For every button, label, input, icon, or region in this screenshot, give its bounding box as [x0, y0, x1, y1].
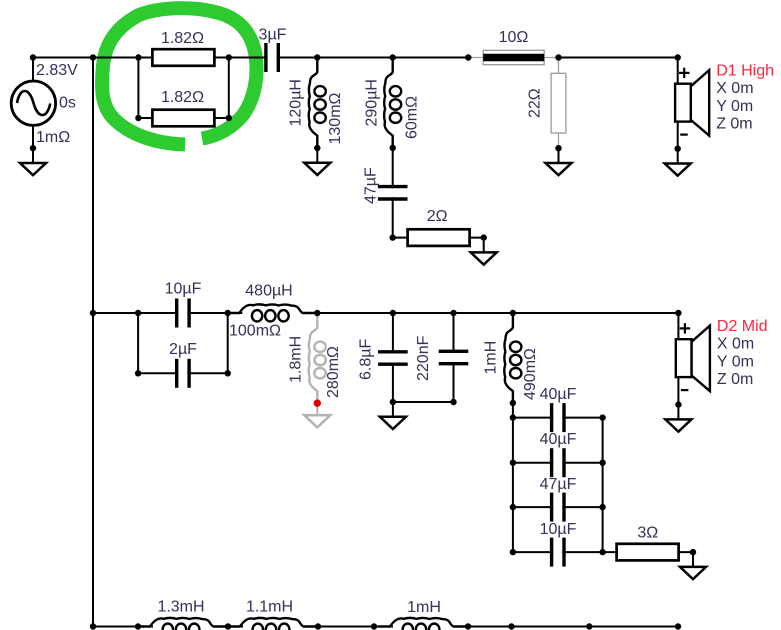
node: 290&#181;H out — [390, 145, 396, 151]
node: 1mH right — [465, 623, 471, 629]
node: 3&#937; gnd — [690, 549, 696, 555]
wire: D2 minus lead — [677, 377, 679, 405]
wire: parallel-R right branch — [228, 58, 230, 119]
ground (2&#937;) — [471, 238, 497, 265]
resistor 1.82&#937; (upper of parallel pair) — [152, 49, 214, 66]
resistor 3&#937; — [617, 544, 679, 561]
wire: bottom rail segment — [93, 626, 153, 628]
inductor 1.1mH (woofer branch) — [228, 618, 318, 630]
svg-text:1.1mH: 1.1mH — [246, 599, 293, 616]
node: bank rung1 left — [510, 414, 516, 420]
node: shunt gnd left — [390, 399, 396, 405]
svg-text:290µH: 290µH — [364, 79, 381, 126]
svg-text:D2 Mid: D2 Mid — [717, 318, 768, 335]
svg-text:X 0m: X 0m — [716, 80, 753, 97]
wire: source bottom lead — [32, 125, 34, 148]
svg-text:490mΩ: 490mΩ — [522, 348, 539, 400]
node: 2&#181;F left — [135, 370, 141, 376]
svg-text:2Ω: 2Ω — [427, 208, 448, 225]
node: bank rung1 right — [599, 414, 605, 420]
voltage source V1 2.83V — [11, 81, 55, 125]
svg-text:1.8mH: 1.8mH — [288, 336, 305, 383]
capacitor 2&#181;F — [177, 358, 189, 388]
wire: gray lead out of 10&#937; — [544, 57, 558, 59]
svg-text:1mΩ: 1mΩ — [36, 129, 70, 146]
svg-text:40µF: 40µF — [540, 386, 577, 403]
node: mid rail tap — [90, 310, 96, 316]
driver D1 High (tweeter) — [675, 70, 709, 136]
node: 1.3mH/1.1mH — [225, 623, 231, 629]
wire: bottom rail segment — [303, 626, 393, 628]
wire: parallel-R bottom branch — [138, 117, 228, 119]
node: 10&#937; left — [465, 54, 471, 60]
svg-text:120µH: 120µH — [287, 79, 304, 126]
capacitor 47&#181;F — [378, 187, 408, 199]
wire: cap-bank right rail — [602, 418, 604, 552]
wire: 6.8&#181;F branch — [392, 313, 394, 402]
inductor 480&#181;H series — [227, 304, 317, 321]
node: bank rung4 right — [599, 549, 605, 555]
svg-text:22Ω: 22Ω — [527, 88, 544, 118]
svg-text:220nF: 220nF — [415, 335, 432, 381]
svg-text:40µF: 40µF — [540, 431, 577, 448]
node: 1.3mH left — [135, 623, 141, 629]
wire: cap-bank rung 2 — [513, 462, 603, 464]
svg-text:47µF: 47µF — [540, 476, 577, 493]
svg-text:1mH: 1mH — [407, 599, 441, 616]
wire: cap-bank rung 3 — [513, 506, 603, 508]
ground (source) — [20, 148, 46, 175]
wire: top rail right of 10&#937; — [559, 57, 678, 59]
node: 10&#181;F left — [135, 310, 141, 316]
svg-text:Y 0m: Y 0m — [716, 98, 753, 115]
wire: mid rail right segment — [302, 312, 678, 314]
wire: bottom rail segment — [453, 626, 678, 628]
node: parallel-R lower left — [135, 115, 141, 121]
node: parallel-R left — [135, 54, 141, 60]
node: D2 plus — [675, 310, 681, 316]
svg-text:10µF: 10µF — [540, 521, 577, 538]
resistor 22&#937; (open, gray vertical body) — [551, 73, 566, 133]
svg-text:1.3mH: 1.3mH — [157, 599, 204, 616]
resistor 2&#937; — [408, 229, 470, 246]
svg-text:X 0m: X 0m — [717, 336, 754, 353]
svg-text:1.82Ω: 1.82Ω — [161, 89, 204, 106]
capacitor 10&#181;F (bank 4) — [552, 537, 564, 567]
wire: 2&#181;F right branch — [227, 313, 229, 373]
wire: shunt cap bottom rail — [393, 401, 454, 403]
svg-text:6.8µF: 6.8µF — [357, 339, 374, 380]
node: source gnd — [30, 145, 36, 151]
svg-text:47µF: 47µF — [363, 167, 380, 204]
node: 1mH out — [510, 400, 516, 406]
node: 6.8&#181;F tap — [390, 310, 396, 316]
wire: mid rail left segment — [93, 312, 242, 314]
node: 1.1mH right — [315, 623, 321, 629]
wire: D1 minus lead — [677, 122, 679, 149]
node: bottom tap — [586, 623, 592, 629]
wire: cap-bank rung 1 — [513, 417, 603, 419]
svg-text:1mH: 1mH — [483, 341, 500, 375]
capacitor 6.8&#181;F shunt — [378, 352, 408, 364]
ground (22&#937;) — [546, 148, 572, 175]
node: bank rung4 left — [510, 549, 516, 555]
inductor 1.8mH (disconnected, gray) — [309, 313, 326, 403]
node: 120&#181;H tap — [314, 54, 320, 60]
node: 10&#181;F right — [225, 310, 231, 316]
wire: D1 plus lead — [677, 58, 679, 84]
wire: gray lead into 10&#937; — [468, 57, 483, 59]
ground (D1) — [665, 149, 691, 176]
svg-text:60mΩ: 60mΩ — [404, 96, 421, 139]
svg-text:1.82Ω: 1.82Ω — [161, 30, 204, 47]
svg-text:2µF: 2µF — [169, 341, 197, 358]
node: 10&#937; right / 22&#937; tap — [555, 54, 561, 60]
svg-text:Z 0m: Z 0m — [717, 371, 753, 388]
node: 1mH tap — [510, 310, 516, 316]
node: 120&#181;H gnd — [314, 145, 320, 151]
node: 480&#181;H out — [314, 310, 320, 316]
inductor 1mH (woofer branch) — [378, 618, 468, 630]
inductor 1mH shunt — [504, 313, 521, 403]
capacitor 40&#181;F (bank 1) — [552, 403, 564, 433]
unconnected node marker (red dot) — [314, 399, 321, 406]
inductor 120&#181;H shunt — [309, 58, 326, 148]
wire: through 2&#937; — [393, 237, 484, 239]
capacitor 3&#181;F — [266, 43, 278, 73]
svg-text:0s: 0s — [59, 95, 76, 112]
wire: through 3&#937; — [603, 551, 693, 553]
node: 220nF tap — [450, 310, 456, 316]
wire: source top lead — [32, 58, 34, 82]
capacitor 220nF shunt — [439, 351, 469, 363]
node: bottom tap — [508, 623, 514, 629]
node: source top — [30, 54, 36, 60]
svg-text:3Ω: 3Ω — [637, 525, 658, 542]
capacitor 47&#181;F (bank 3) — [552, 492, 564, 522]
ground (120&#181;H) — [304, 148, 330, 175]
wire: parallel-R left branch — [137, 58, 139, 119]
svg-text:280mΩ: 280mΩ — [325, 346, 342, 398]
inductor 1.3mH (woofer branch) — [138, 618, 228, 630]
wire: bottom rail segment — [213, 626, 243, 628]
driver D2 Mid (midrange) — [676, 326, 710, 392]
svg-text:Z 0m: Z 0m — [716, 116, 752, 133]
ground (gray, disconnected) — [304, 403, 330, 427]
wire: main vertical rail — [92, 58, 94, 627]
node: bank rung3 left — [510, 504, 516, 510]
ground (3&#937;) — [680, 552, 706, 579]
svg-text:3µF: 3µF — [259, 27, 287, 44]
wire: D2 plus lead — [677, 313, 679, 339]
resistor 1.82&#937; (lower of parallel pair) — [152, 110, 214, 127]
node: D1 plus — [675, 54, 681, 60]
node: 22&#937; gnd — [555, 145, 561, 151]
node: 2&#937; gnd — [481, 234, 487, 240]
node: bottom rail end — [675, 623, 681, 629]
capacitor 40&#181;F (bank 2) — [552, 448, 564, 478]
node: 2&#937; left — [390, 234, 396, 240]
node: parallel-R right — [226, 54, 232, 60]
node: bank rung2 right — [599, 460, 605, 466]
svg-text:130mΩ: 130mΩ — [327, 92, 344, 144]
svg-text:10µF: 10µF — [165, 281, 202, 298]
node: D2 minus — [675, 401, 681, 407]
node: bank rung2 left — [510, 460, 516, 466]
wire: 220nF branch — [453, 313, 455, 402]
node: rail tap — [90, 54, 96, 60]
wire: 2&#181;F bottom branch — [138, 372, 228, 374]
node: D1 minus — [675, 146, 681, 152]
resistor 10&#937; (shorted, gray body with thick black bar) — [483, 50, 544, 64]
wire: gray lead from 22&#937; — [558, 133, 560, 148]
svg-text:2.83V: 2.83V — [36, 62, 78, 79]
svg-text:480µH: 480µH — [245, 283, 292, 300]
node: bank rung3 right — [599, 504, 605, 510]
ground (D2) — [665, 405, 691, 432]
wire: 2&#181;F left branch — [137, 313, 139, 373]
wire: cap-bank rung 4 — [513, 551, 603, 553]
capacitor 10&#181;F — [177, 298, 189, 328]
ground (mid shunt caps) — [380, 402, 406, 429]
wire: 290&#181;H to 47&#181;F to 2&#937; — [392, 148, 394, 238]
node: 290&#181;H tap — [390, 54, 396, 60]
node: shunt gnd right — [450, 399, 456, 405]
wire: gray lead to 22&#937; — [558, 58, 560, 74]
svg-text:Y 0m: Y 0m — [717, 353, 754, 370]
node: parallel-R lower right — [226, 115, 232, 121]
node: bottom tap — [371, 623, 377, 629]
inductor 290&#181;H — [384, 58, 401, 148]
node: bottom rail corner — [90, 623, 96, 629]
svg-text:D1 High: D1 High — [716, 62, 774, 79]
svg-text:100mΩ: 100mΩ — [229, 322, 281, 339]
marker annotation: green hand-drawn circle around parallel resistors — [102, 8, 256, 144]
wire: cap-bank left rail — [512, 403, 514, 552]
wire: top rail left of 10&#937; — [33, 57, 468, 59]
node: 2&#181;F right — [225, 370, 231, 376]
svg-text:10Ω: 10Ω — [499, 29, 529, 46]
